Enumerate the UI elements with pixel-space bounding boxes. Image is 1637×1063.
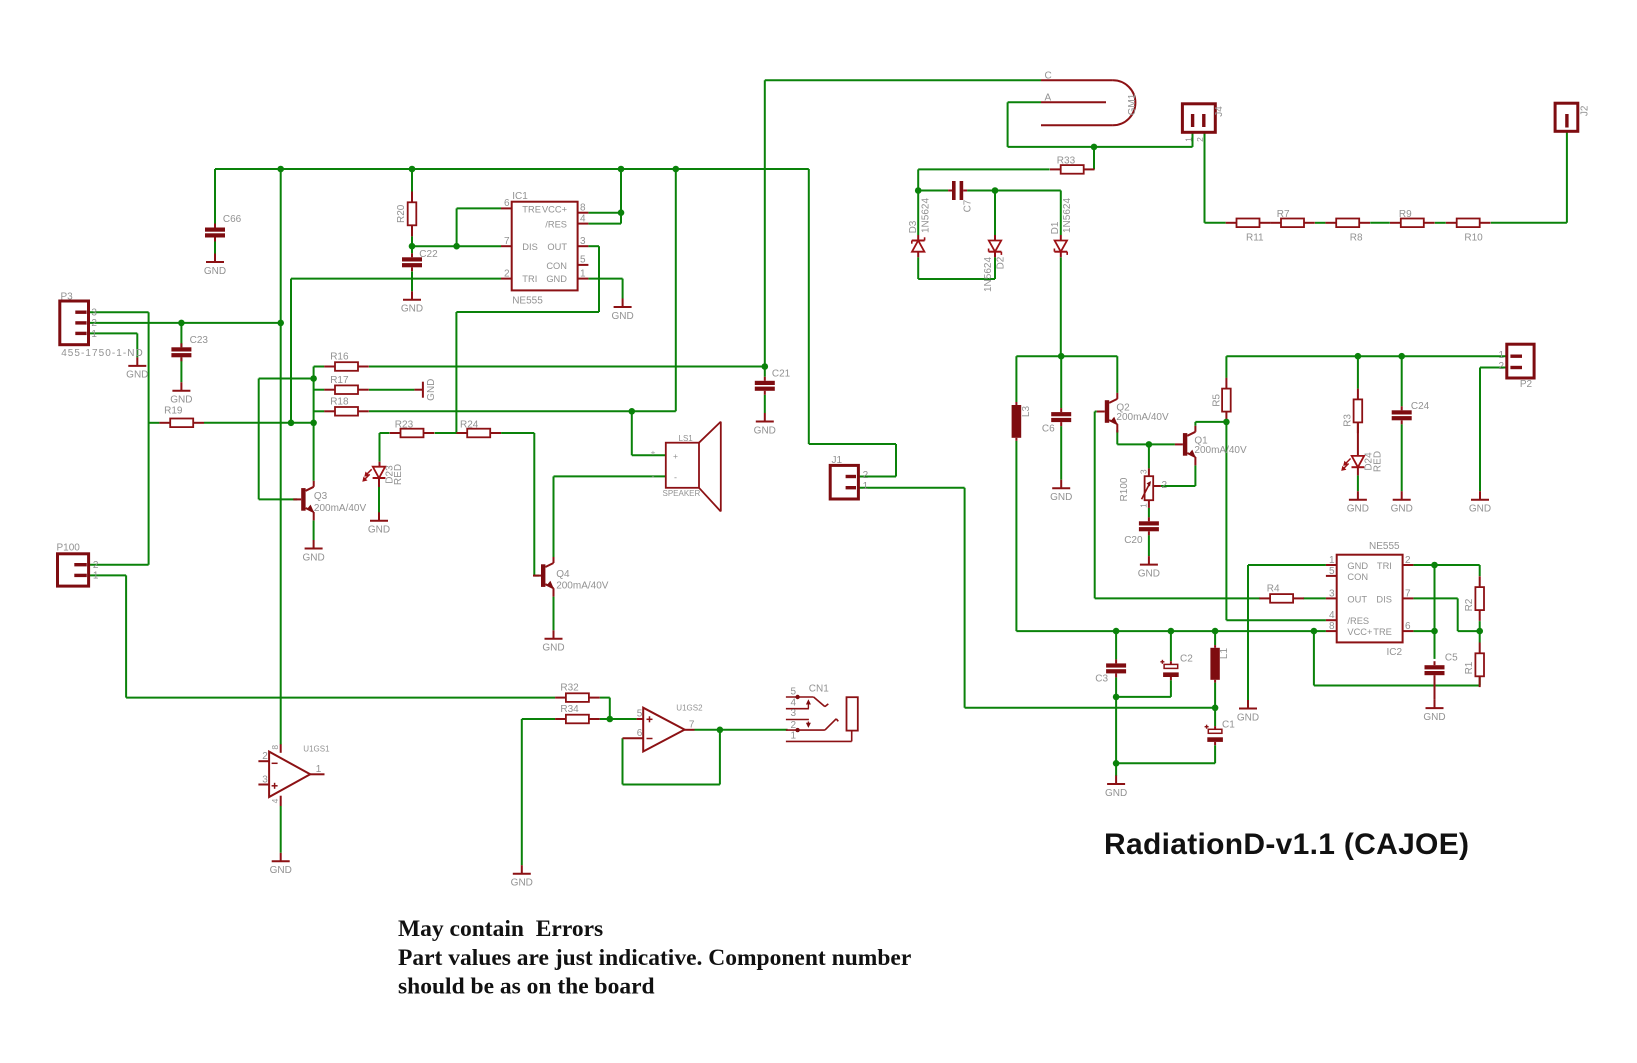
- svg-text:R7: R7: [1277, 209, 1290, 220]
- svg-text:2: 2: [1405, 555, 1411, 566]
- svg-text:/RES: /RES: [1347, 616, 1369, 626]
- svg-text:8: 8: [270, 745, 280, 750]
- svg-text:C21: C21: [772, 369, 791, 380]
- svg-text:2: 2: [1195, 137, 1205, 142]
- svg-text:U1GS1: U1GS1: [303, 744, 330, 753]
- svg-text:NE555: NE555: [1369, 541, 1400, 552]
- svg-text:C7: C7: [962, 199, 973, 212]
- svg-text:Q3: Q3: [314, 491, 328, 502]
- svg-text:R18: R18: [330, 397, 349, 408]
- svg-text:R4: R4: [1267, 584, 1280, 595]
- svg-text:D2: D2: [995, 256, 1006, 269]
- svg-text:GND: GND: [542, 643, 564, 654]
- svg-text:R20: R20: [396, 204, 407, 223]
- svg-text:200mA/40V: 200mA/40V: [556, 580, 609, 591]
- svg-text:GND: GND: [302, 552, 324, 563]
- svg-text:IC1: IC1: [512, 191, 528, 202]
- svg-text:1: 1: [1329, 555, 1335, 566]
- svg-text:+: +: [651, 447, 656, 457]
- svg-text:GND: GND: [170, 395, 192, 406]
- svg-text:R23: R23: [395, 420, 414, 431]
- svg-text:P2: P2: [1520, 379, 1533, 390]
- svg-text:200mA/40V: 200mA/40V: [314, 503, 367, 514]
- svg-text:CON: CON: [546, 261, 567, 271]
- svg-text:C2: C2: [1180, 654, 1193, 665]
- svg-text:1: 1: [791, 730, 797, 741]
- svg-text:VCC+: VCC+: [542, 204, 567, 214]
- svg-text:TRE: TRE: [522, 204, 541, 214]
- svg-text:GND: GND: [611, 311, 633, 322]
- svg-text:-: -: [652, 472, 655, 482]
- svg-text:R9: R9: [1399, 209, 1412, 220]
- svg-text:1: 1: [863, 481, 869, 492]
- svg-text:GND: GND: [1423, 712, 1445, 723]
- svg-text:8: 8: [580, 203, 586, 214]
- svg-text:GND: GND: [368, 525, 390, 536]
- svg-text:GND: GND: [511, 878, 533, 889]
- svg-text:DIS: DIS: [1376, 594, 1392, 604]
- svg-text:3: 3: [580, 236, 586, 247]
- svg-text:1: 1: [1139, 503, 1149, 508]
- svg-text:R8: R8: [1350, 233, 1363, 244]
- svg-text:J1: J1: [832, 455, 843, 466]
- svg-text:P100: P100: [57, 543, 81, 554]
- svg-text:R24: R24: [460, 420, 479, 431]
- svg-text:C23: C23: [190, 335, 209, 346]
- svg-text:+: +: [673, 451, 678, 461]
- svg-text:7: 7: [1405, 588, 1411, 599]
- svg-text:C: C: [1045, 71, 1052, 82]
- svg-text:TRE: TRE: [1373, 627, 1392, 637]
- svg-text:1N5624: 1N5624: [983, 257, 994, 292]
- svg-text:C3: C3: [1095, 674, 1108, 685]
- svg-text:4: 4: [1329, 610, 1335, 621]
- svg-text:R16: R16: [330, 352, 349, 363]
- svg-text:1: 1: [1498, 350, 1504, 361]
- svg-text:6: 6: [504, 198, 510, 209]
- svg-text:C66: C66: [223, 214, 242, 225]
- svg-text:6: 6: [637, 728, 643, 739]
- svg-text:3: 3: [1329, 588, 1335, 599]
- svg-text:D1: D1: [1050, 221, 1061, 234]
- svg-text:TRI: TRI: [522, 274, 537, 284]
- svg-text:2: 2: [93, 560, 99, 571]
- svg-text:8: 8: [1329, 621, 1335, 632]
- svg-text:2: 2: [91, 318, 97, 329]
- svg-text:200mA/40V: 200mA/40V: [1194, 445, 1247, 456]
- svg-text:OUT: OUT: [1347, 594, 1367, 604]
- svg-text:J4: J4: [1214, 106, 1225, 117]
- svg-text:6: 6: [1405, 621, 1411, 632]
- svg-text:5: 5: [791, 687, 797, 698]
- svg-text:GND: GND: [1050, 492, 1072, 503]
- svg-text:C6: C6: [1042, 424, 1055, 435]
- svg-text:GND: GND: [1237, 712, 1259, 723]
- svg-text:SPEAKER: SPEAKER: [663, 489, 701, 498]
- svg-text:1: 1: [1183, 137, 1193, 142]
- svg-text:May contain Errors: May contain Errors: [398, 916, 603, 942]
- svg-text:DIS: DIS: [522, 242, 538, 252]
- svg-text:GND: GND: [1347, 504, 1369, 515]
- svg-text:C20: C20: [1124, 535, 1143, 546]
- svg-text:5: 5: [1329, 566, 1335, 577]
- svg-text:2: 2: [262, 751, 268, 762]
- svg-text:GND: GND: [426, 379, 437, 401]
- svg-text:2: 2: [791, 720, 797, 731]
- svg-text:CON: CON: [1347, 572, 1368, 582]
- svg-text:C24: C24: [1411, 401, 1430, 412]
- svg-text:GND: GND: [1105, 788, 1127, 799]
- svg-text:1N5624: 1N5624: [920, 198, 931, 233]
- svg-text:C1: C1: [1222, 720, 1235, 731]
- svg-text:Part values are just indicativ: Part values are just indicative. Compone…: [398, 945, 911, 971]
- svg-text:Q4: Q4: [556, 569, 570, 580]
- svg-text:GND: GND: [1347, 561, 1368, 571]
- svg-text:R34: R34: [560, 704, 579, 715]
- svg-text:C5: C5: [1445, 653, 1458, 664]
- svg-text:455-1750-1-ND: 455-1750-1-ND: [61, 348, 144, 359]
- svg-text:1: 1: [93, 571, 99, 582]
- svg-text:R19: R19: [164, 406, 183, 417]
- svg-text:TRI: TRI: [1377, 561, 1392, 571]
- svg-text:L3: L3: [1021, 406, 1032, 418]
- svg-text:GND: GND: [270, 865, 292, 876]
- svg-text:5: 5: [580, 255, 586, 266]
- svg-text:R5: R5: [1211, 394, 1222, 407]
- svg-text:R3: R3: [1342, 414, 1353, 427]
- svg-text:IC2: IC2: [1387, 647, 1403, 658]
- svg-text:VCC+: VCC+: [1347, 627, 1372, 637]
- svg-text:C22: C22: [419, 249, 438, 260]
- svg-text:GND: GND: [1138, 568, 1160, 579]
- svg-text:7: 7: [504, 236, 510, 247]
- svg-text:R11: R11: [1246, 233, 1264, 244]
- svg-text:R17: R17: [330, 375, 349, 386]
- svg-text:GM1: GM1: [1127, 93, 1138, 115]
- svg-text:R100: R100: [1119, 477, 1130, 501]
- svg-text:RED: RED: [393, 464, 404, 485]
- svg-text:5: 5: [637, 709, 643, 720]
- svg-text:3: 3: [91, 308, 97, 319]
- svg-text:2: 2: [1162, 480, 1168, 491]
- svg-text:CN1: CN1: [809, 684, 829, 695]
- svg-text:A: A: [1045, 93, 1052, 104]
- svg-text:4: 4: [791, 697, 797, 708]
- svg-text:RED: RED: [1372, 451, 1383, 472]
- svg-text:GND: GND: [1391, 504, 1413, 515]
- svg-text:R33: R33: [1057, 156, 1076, 167]
- svg-text:R32: R32: [560, 683, 579, 694]
- svg-text:2: 2: [1498, 361, 1504, 372]
- svg-text:2: 2: [504, 268, 510, 279]
- svg-text:GND: GND: [126, 370, 148, 381]
- svg-text:R1: R1: [1464, 661, 1475, 674]
- svg-text:R2: R2: [1464, 598, 1475, 611]
- svg-text:should be as on the board: should be as on the board: [398, 974, 655, 1000]
- svg-text:GND: GND: [754, 425, 776, 436]
- svg-text:LS1: LS1: [679, 434, 694, 443]
- svg-text:OUT: OUT: [547, 242, 567, 252]
- svg-text:-: -: [674, 473, 677, 483]
- svg-text:J2: J2: [1579, 105, 1590, 116]
- svg-text:L1: L1: [1219, 648, 1230, 660]
- svg-text:/RES: /RES: [545, 220, 567, 230]
- svg-text:GND: GND: [1469, 504, 1491, 515]
- svg-text:7: 7: [689, 719, 695, 730]
- svg-text:R10: R10: [1464, 233, 1483, 244]
- svg-text:1: 1: [91, 329, 97, 340]
- svg-text:GND: GND: [204, 266, 226, 277]
- svg-text:U1GS2: U1GS2: [676, 703, 703, 712]
- svg-text:4: 4: [580, 214, 586, 225]
- svg-text:RadiationD-v1.1 (CAJOE): RadiationD-v1.1 (CAJOE): [1104, 828, 1469, 861]
- svg-text:2: 2: [863, 470, 869, 481]
- svg-text:P3: P3: [61, 292, 74, 303]
- svg-text:D3: D3: [908, 220, 919, 233]
- svg-text:3: 3: [262, 775, 268, 786]
- svg-text:1N5624: 1N5624: [1062, 198, 1073, 233]
- svg-text:1: 1: [316, 764, 322, 775]
- svg-text:NE555: NE555: [512, 296, 543, 307]
- svg-text:1: 1: [580, 268, 586, 279]
- svg-text:3: 3: [791, 708, 797, 719]
- svg-text:GND: GND: [401, 304, 423, 315]
- svg-text:200mA/40V: 200mA/40V: [1116, 412, 1169, 423]
- svg-text:4: 4: [270, 798, 280, 803]
- svg-text:GND: GND: [546, 274, 567, 284]
- svg-text:3: 3: [1139, 469, 1149, 474]
